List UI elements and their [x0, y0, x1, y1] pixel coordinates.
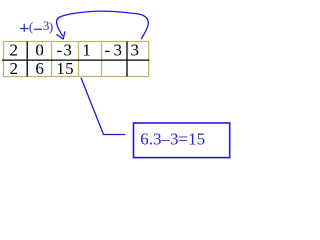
svg-text:-3: -3 — [57, 41, 74, 60]
svg-text:-3: -3 — [105, 41, 126, 60]
svg-text:6.3–3=15: 6.3–3=15 — [140, 129, 205, 148]
svg-text:1: 1 — [82, 41, 91, 60]
svg-text:): ) — [49, 19, 53, 34]
svg-text:6: 6 — [35, 59, 44, 78]
svg-text:0: 0 — [35, 41, 44, 60]
svg-text:3: 3 — [130, 41, 139, 60]
svg-text:2: 2 — [10, 41, 19, 60]
svg-text:(: ( — [29, 19, 33, 34]
svg-text:15: 15 — [56, 59, 74, 78]
svg-text:2: 2 — [10, 59, 19, 78]
